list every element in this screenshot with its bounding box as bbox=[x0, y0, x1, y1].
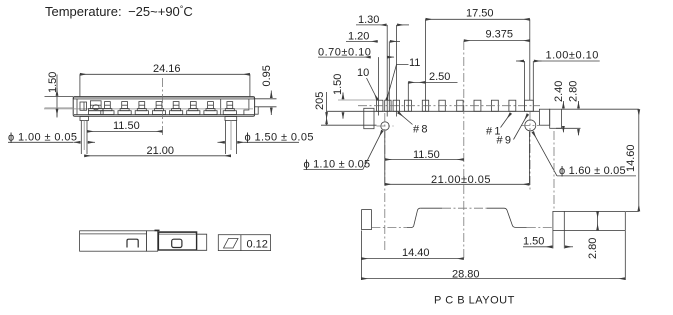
leader #8 bbox=[398, 112, 427, 135]
dim 17.50 bbox=[426, 8, 530, 112]
hook detail bbox=[127, 239, 138, 247]
svg-text:1.00±0.10: 1.00±0.10 bbox=[546, 49, 599, 61]
ext lines right tab step bbox=[552, 231, 554, 249]
dim 24.16 bbox=[80, 63, 250, 96]
svg-text:21.00: 21.00 bbox=[147, 145, 175, 157]
svg-text:1.20: 1.20 bbox=[348, 31, 369, 43]
leader 11 bbox=[387, 57, 421, 100]
svg-text:ϕ 1.60 ± 0.05: ϕ 1.60 ± 0.05 bbox=[559, 165, 626, 177]
right mount pad bbox=[539, 109, 561, 128]
dim 1.50 left bbox=[45, 72, 74, 118]
pads centerline bbox=[358, 105, 540, 107]
right tab bbox=[553, 211, 639, 230]
svg-text:ϕ 1.10 ± 0.05: ϕ 1.10 ± 0.05 bbox=[304, 159, 371, 171]
dim dia 1.00 +/-0.05 bbox=[8, 131, 95, 143]
dim 21.00 left view bbox=[84, 145, 231, 157]
hole dia1.60 centerline bbox=[529, 112, 531, 192]
right leg bbox=[225, 117, 237, 155]
svg-text:24.16: 24.16 bbox=[153, 63, 181, 75]
dim 9.375 bbox=[464, 29, 530, 41]
svg-text:# 8: # 8 bbox=[413, 124, 427, 136]
svg-text:17.50: 17.50 bbox=[466, 8, 494, 20]
hole dia1.60 bbox=[525, 120, 536, 131]
retention lug bbox=[80, 102, 87, 110]
flatness frame bbox=[218, 235, 270, 251]
svg-text:2.50: 2.50 bbox=[429, 71, 450, 83]
svg-text:1.50: 1.50 bbox=[523, 236, 544, 248]
leader #9 bbox=[497, 114, 528, 147]
dim 21.00 +/-0.05 bbox=[385, 131, 530, 186]
svg-text:2.80: 2.80 bbox=[587, 238, 599, 259]
hole dia1.10 bbox=[381, 122, 389, 130]
dim 1.50 bottom bbox=[523, 236, 573, 248]
leader #1 bbox=[486, 113, 511, 137]
svg-text:2.40: 2.40 bbox=[553, 81, 565, 102]
view centerline pcb bbox=[463, 41, 465, 258]
cap top corner tick bbox=[155, 229, 160, 231]
dim dia 1.10 +/-0.05 bbox=[304, 130, 383, 170]
ext line right top bbox=[562, 108, 639, 110]
hole dia1.10 centerline bbox=[384, 113, 386, 250]
slot centerline left bbox=[371, 227, 407, 229]
dim 0.70 +/-0.10 bbox=[318, 46, 394, 58]
dim 1.00 +/-0.10 bbox=[516, 49, 600, 111]
dark cap bbox=[158, 232, 196, 250]
svg-text:14.60: 14.60 bbox=[625, 144, 637, 172]
dim 2.40 bbox=[553, 81, 565, 132]
dim dia 1.60 +/-0.05 bbox=[533, 132, 636, 177]
cap hole bbox=[172, 239, 182, 247]
svg-text:14.40: 14.40 bbox=[402, 247, 430, 259]
dim 11.50 left view bbox=[87, 120, 163, 132]
dim 0.95 bbox=[255, 65, 277, 115]
dim 205 bbox=[314, 92, 377, 126]
svg-text:9.375: 9.375 bbox=[486, 29, 514, 41]
outline left chamfer bbox=[407, 208, 420, 227]
svg-text:0.70±0.10: 0.70±0.10 bbox=[318, 46, 371, 58]
svg-text:205: 205 bbox=[314, 92, 326, 110]
svg-text:Temperature: −25~+90°C: Temperature: −25~+90°C bbox=[45, 4, 193, 19]
leader 10 bbox=[357, 67, 378, 100]
svg-text:1.30: 1.30 bbox=[358, 14, 379, 26]
svg-text:# 9: # 9 bbox=[497, 135, 511, 147]
right small cell bbox=[197, 234, 207, 250]
svg-text:ϕ 1.00 ± 0.05: ϕ 1.00 ± 0.05 bbox=[8, 131, 77, 143]
left mount pad bbox=[364, 108, 374, 128]
svg-text:P C B LAYOUT: P C B LAYOUT bbox=[434, 295, 515, 307]
side view body bbox=[80, 231, 158, 251]
dim 11.50 pcb bbox=[385, 149, 464, 161]
pad 9 wide bbox=[525, 100, 534, 111]
outline right chamfer bbox=[504, 208, 527, 227]
dim 2.50 bbox=[408, 71, 457, 111]
svg-text:1.50: 1.50 bbox=[332, 74, 344, 95]
svg-text:0.95: 0.95 bbox=[261, 65, 273, 86]
dim dia 1.50 +/-0.05 bbox=[218, 131, 314, 143]
dim 1.30 bbox=[356, 14, 409, 26]
contact 1 wide bbox=[88, 101, 103, 115]
svg-text:11.50: 11.50 bbox=[113, 120, 140, 132]
pcb outline left tab bbox=[362, 210, 372, 230]
body outline bbox=[73, 97, 258, 117]
svg-text:11: 11 bbox=[409, 57, 420, 69]
main pad baseline bbox=[327, 110, 540, 112]
svg-text:0.12: 0.12 bbox=[247, 239, 268, 251]
dim 1.50 pcb left bbox=[332, 74, 377, 119]
svg-text:2.80: 2.80 bbox=[568, 81, 580, 102]
dim 14.60 bbox=[625, 109, 639, 211]
view centerline bbox=[162, 78, 164, 135]
dim 14.40 bbox=[361, 231, 463, 281]
plateau bbox=[420, 207, 442, 209]
dim 1.20 bbox=[346, 31, 400, 43]
dim 2.80 right top bbox=[556, 81, 581, 135]
tab centerline bbox=[553, 131, 555, 211]
ext cluster pads 10/11 bbox=[379, 25, 397, 117]
dim 2.80 bottom bbox=[587, 211, 599, 259]
left leg bbox=[80, 117, 89, 155]
slot centerline right bbox=[527, 227, 553, 229]
contacts row bbox=[101, 102, 237, 115]
svg-text:ϕ 1.50 ± 0.05: ϕ 1.50 ± 0.05 bbox=[245, 131, 314, 143]
pads row bbox=[377, 100, 534, 111]
svg-text:10: 10 bbox=[357, 67, 369, 79]
dim 28.80 bbox=[361, 231, 625, 281]
contact slot centerline bbox=[44, 108, 253, 110]
